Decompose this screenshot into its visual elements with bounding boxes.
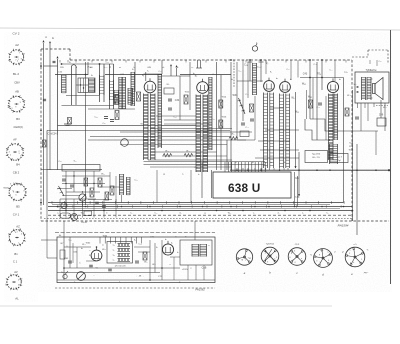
cap C48 box <box>377 118 386 126</box>
svg-text:Tₕ: Tₕ <box>112 255 114 257</box>
dial lamp <box>252 46 257 51</box>
svg-text:Tₙ: Tₙ <box>112 245 114 247</box>
wire y85 RF <box>76 84 88 86</box>
tube socket S6 <box>6 274 22 290</box>
svg-text:Sₓ: Sₓ <box>156 247 158 249</box>
svg-text:AL: AL <box>15 296 19 300</box>
svg-text:C₆₇: C₆₇ <box>97 259 100 261</box>
svg-text:n₂: n₂ <box>192 67 194 69</box>
svg-text:C₅₉: C₅₉ <box>102 123 105 125</box>
svg-text:4: 4 <box>274 259 275 261</box>
pilot lamp circle <box>71 214 78 221</box>
svg-text:2: 2 <box>21 149 22 151</box>
svg-text:C₅₀: C₅₀ <box>378 61 381 63</box>
svg-text:6: 6 <box>350 263 351 265</box>
arrow post 1 <box>170 64 172 66</box>
svg-text:8: 8 <box>9 61 10 63</box>
junction dots on buses <box>57 206 59 208</box>
coil S1a <box>62 75 67 93</box>
power box outline <box>57 237 215 283</box>
svg-text:S₈: S₈ <box>231 79 233 81</box>
svg-text:C₄₄: C₄₄ <box>329 70 332 72</box>
svg-text:2: 2 <box>10 155 11 157</box>
tube U3 cathode columns <box>264 93 268 169</box>
wire y132 <box>120 131 252 133</box>
wire y81 to tube3 <box>237 80 263 82</box>
svg-text:W₄₈: W₄₈ <box>347 95 351 97</box>
svg-text:2: 2 <box>17 232 18 234</box>
svg-text:W₉: W₉ <box>167 84 170 86</box>
svg-text:f₂: f₂ <box>119 282 121 284</box>
cluster wires <box>62 175 110 177</box>
wires to bus <box>65 199 67 211</box>
wire vertical x135 <box>134 62 136 92</box>
rectifier tube V1 <box>91 247 102 261</box>
svg-text:W12: W12 <box>185 91 190 93</box>
volume control barrel <box>60 213 71 218</box>
svg-text:h₀: h₀ <box>198 174 200 176</box>
tube U3 (detector) <box>264 78 275 92</box>
svg-text:W₃₂: W₃₂ <box>231 134 235 136</box>
svg-text:9: 9 <box>12 191 13 193</box>
svg-text:g: g <box>241 259 242 261</box>
dashed border right <box>351 60 353 221</box>
tube socket S2 (CBL) <box>8 95 25 112</box>
power transformer box <box>180 240 212 265</box>
svg-text:3: 3 <box>18 153 19 155</box>
svg-text:a•: a• <box>334 251 336 253</box>
svg-text:k: k <box>360 254 361 256</box>
svg-text:W48: W48 <box>349 150 354 152</box>
svg-text:C 1: C 1 <box>13 260 18 264</box>
power left stubs to chassis <box>41 239 57 241</box>
volume pot circle <box>79 194 86 201</box>
wire x180 mid <box>179 76 181 120</box>
power box top comb <box>99 237 101 244</box>
connect to upper dashes <box>63 221 65 237</box>
svg-text:2: 2 <box>292 260 293 262</box>
cluster caps C63 <box>62 178 66 180</box>
svg-text:Tr: Tr <box>185 236 187 239</box>
grid cap wires x197-200 top <box>197 60 199 68</box>
AVC wire x299 with arrow <box>298 152 300 196</box>
svg-text:AV: AV <box>14 270 18 274</box>
coil S2 hatch <box>89 79 95 93</box>
wire y75 seg3 <box>180 74 231 76</box>
coil S5 hatch (osc) <box>119 77 122 109</box>
svg-text:c: c <box>89 250 90 252</box>
wire y120 mid <box>164 119 196 121</box>
ballast bar Th <box>118 254 131 257</box>
mains cord line <box>55 232 215 234</box>
svg-text:Tₛ: Tₛ <box>182 174 184 176</box>
tuning cap rotor hatch <box>110 80 114 100</box>
svg-text:S₂: S₂ <box>91 75 93 77</box>
svg-text:4: 4 <box>18 280 19 282</box>
bus y208.4 faint <box>60 207 340 209</box>
small res W14 <box>219 100 223 108</box>
svg-text:Tₛ: Tₛ <box>112 260 114 262</box>
svg-text:W₅₉: W₅₉ <box>228 212 232 214</box>
coil S3 rails <box>99 64 101 102</box>
detector cluster extra parts <box>250 104 254 112</box>
svg-text:5: 5 <box>361 259 362 261</box>
svg-text:∼: ∼ <box>93 275 95 277</box>
svg-text:S₇₂: S₇₂ <box>73 161 76 163</box>
svg-text:b₄: b₄ <box>290 79 292 81</box>
svg-text:Bn: Bn <box>14 252 18 256</box>
tube socket S4 <box>8 183 27 202</box>
svg-text:6: 6 <box>294 251 295 253</box>
svg-text:2: 2 <box>7 282 8 284</box>
wire x385 <box>384 103 386 131</box>
info box 2 <box>330 154 348 163</box>
svg-text:BL 2: BL 2 <box>13 72 19 76</box>
wire y76 middle <box>162 75 190 77</box>
wire x227 <box>226 140 228 170</box>
aerial series cap <box>53 60 56 62</box>
power box extra internals <box>72 243 74 263</box>
bus y170 main <box>230 169 389 171</box>
aerial arrow E <box>49 41 51 43</box>
svg-text:W₆₇: W₆₇ <box>144 261 148 263</box>
coil S4 hatch <box>114 90 119 105</box>
bus tick marks <box>51 201 53 204</box>
speaker cone <box>373 84 376 94</box>
coil S3 rungs <box>100 75 105 95</box>
svg-text:1: 1 <box>18 242 19 244</box>
svg-text:6: 6 <box>18 284 19 286</box>
svg-text:B4: B4 <box>16 162 20 166</box>
svg-text:g₄: g₄ <box>179 282 181 284</box>
wire x243 det <box>242 70 244 121</box>
wire x221 tall <box>220 75 222 170</box>
shield step outline left <box>305 119 330 140</box>
svg-text:4: 4 <box>12 231 13 233</box>
scan page right edge <box>390 30 392 284</box>
svg-text:C₄₁: C₄₁ <box>245 127 248 129</box>
pot arrow <box>80 194 87 201</box>
svg-text:W₆₁: W₆₁ <box>81 212 85 214</box>
dashed top-right pocket <box>352 56 368 58</box>
svg-text:h₄: h₄ <box>284 162 286 164</box>
svg-text:C₆₂: C₆₂ <box>194 167 197 169</box>
svg-text:C₄₀: C₄₀ <box>245 94 248 96</box>
ballast bar Tf <box>118 259 131 262</box>
svg-text:638 U: 638 U <box>228 181 260 195</box>
coil S6 hatch <box>128 88 133 105</box>
base diagram d <box>314 249 333 268</box>
IF2 primary coil <box>196 95 201 173</box>
svg-text:C₅₁: C₅₁ <box>58 161 61 163</box>
scan page top edge <box>0 28 400 30</box>
power transformer primary <box>192 244 199 257</box>
wire bus y64 top <box>62 63 114 65</box>
svg-text:h₃: h₃ <box>270 162 272 164</box>
type box 638U <box>213 172 291 198</box>
svg-text:W₄₃: W₄₃ <box>308 95 312 98</box>
speaker wires <box>371 78 373 80</box>
tube U1 (mixer) <box>144 78 156 93</box>
small res bottom <box>143 252 147 260</box>
lamp drop wire 1 <box>249 60 251 81</box>
svg-text:PH1594: PH1594 <box>338 223 349 227</box>
svg-text:6: 6 <box>8 235 9 237</box>
svg-text:C₅₄: C₅₄ <box>238 71 241 73</box>
cluster verticals <box>65 171 67 199</box>
svg-text:B3: B3 <box>16 117 20 121</box>
svg-text:b₈: b₈ <box>165 239 167 241</box>
svg-text:b₃: b₃ <box>276 78 278 80</box>
svg-text:C·n/C34: C·n/C34 <box>48 132 58 135</box>
cluster extra res boxes <box>84 178 88 186</box>
resistor W6 <box>137 92 141 101</box>
svg-text:b₆: b₆ <box>81 248 83 250</box>
svg-text:GW: GW <box>147 67 151 69</box>
dashed border bottom <box>41 220 389 222</box>
cluster junction dots <box>65 183 66 184</box>
scan noise overlay <box>38 32 392 292</box>
cap C41 <box>241 122 245 124</box>
svg-text:1: 1 <box>12 197 13 199</box>
svg-text:g•: g• <box>342 251 344 253</box>
wire x322 <box>321 60 323 90</box>
svg-text:h₂: h₂ <box>252 162 254 164</box>
dashed border left <box>40 49 42 221</box>
svg-text:C₆₈: C₆₈ <box>138 243 141 245</box>
wire vertical x85.5 <box>85 62 87 205</box>
svg-text:k: k <box>353 262 354 264</box>
base diagram e <box>345 247 365 267</box>
svg-text:125 150 220: 125 150 220 <box>114 266 126 268</box>
svg-text:S₁: S₁ <box>69 62 71 64</box>
svg-text:5: 5 <box>9 104 10 106</box>
svg-text:a₁: a₁ <box>57 212 59 214</box>
svg-text:m₂: m₂ <box>179 212 182 214</box>
svg-text:C₄₆: C₄₆ <box>316 107 319 109</box>
trimmer circle <box>121 139 129 147</box>
svg-text:S₁₀: S₁₀ <box>353 84 356 86</box>
svg-text:b₅: b₅ <box>339 79 341 81</box>
svg-text:6: 6 <box>289 257 290 259</box>
svg-text:6: 6 <box>5 284 6 286</box>
aerial arrow A <box>42 40 44 42</box>
bus y215 dashed <box>48 214 352 216</box>
svg-text:2: 2 <box>18 151 19 153</box>
shield step outline right <box>310 119 378 131</box>
zigzag resistor W15 <box>163 154 172 157</box>
wire x381 <box>380 100 382 118</box>
speaker terminal marks <box>356 86 359 88</box>
svg-text:W₆₆: W₆₆ <box>102 249 106 251</box>
svg-text:C₆₁: C₆₁ <box>134 179 137 181</box>
svg-text:8: 8 <box>23 191 24 193</box>
svg-text:W64: W64 <box>103 235 108 237</box>
svg-text:B5: B5 <box>16 204 20 208</box>
small box right of lamp <box>84 211 92 216</box>
svg-text:C₄₅: C₄₅ <box>313 64 316 66</box>
svg-text:3: 3 <box>20 102 21 104</box>
svg-text:e₁: e₁ <box>74 282 76 284</box>
svg-text:AB: AB <box>15 89 19 93</box>
svg-text:C34: C34 <box>175 99 180 102</box>
svg-text:4: 4 <box>9 152 10 154</box>
svg-text:k: k <box>328 255 329 257</box>
ground tick <box>64 123 71 125</box>
wire x237 det <box>236 62 238 140</box>
ballast box <box>107 242 133 264</box>
svg-text:C₁₈: C₁₈ <box>105 61 108 63</box>
switch box <box>62 165 100 172</box>
wire x352 inner <box>352 90 354 221</box>
cluster caps C64 <box>70 184 74 186</box>
svg-text:T₁: T₁ <box>147 71 149 73</box>
svg-text:Tyg 15/4: Tyg 15/4 <box>312 154 321 156</box>
svg-text:W₄₂: W₄₂ <box>302 82 306 85</box>
power bottom dashed <box>55 287 215 289</box>
small caps bottom <box>135 260 139 262</box>
svg-text:k₀: k₀ <box>131 212 133 214</box>
top band extra verticals right half <box>242 60 244 70</box>
svg-text:CV 2: CV 2 <box>13 32 20 36</box>
svg-text:W₆₅: W₆₅ <box>82 244 86 246</box>
tube socket S3 <box>6 143 24 161</box>
AVC wire x295 with arrow <box>295 92 297 168</box>
svg-text:W₁₅: W₁₅ <box>165 151 169 153</box>
lamp drop wire 2 <box>260 60 262 82</box>
svg-text:← 48 →: ← 48 → <box>136 275 144 277</box>
wire x310 <box>309 60 311 119</box>
dial lamp bottom <box>77 272 86 281</box>
wire y77 right <box>300 77 344 79</box>
svg-text:d₁: d₁ <box>102 244 104 246</box>
wires under detector to bus <box>236 168 238 170</box>
IF2 third winding <box>209 77 212 150</box>
cap C34 <box>168 98 172 100</box>
zigzag resistor W32 <box>229 137 238 140</box>
svg-text:8: 8 <box>21 281 22 283</box>
svg-text:4 EW(2): 4 EW(2) <box>13 125 23 129</box>
speaker bottom stubs <box>357 103 359 108</box>
svg-text:g₁: g₁ <box>89 254 91 256</box>
mid horizontals between IF and bus <box>148 159 232 161</box>
switch box inner contacts <box>80 78 82 93</box>
power wires horizontal <box>64 267 180 269</box>
mid horizontal segments x150-230 <box>156 115 196 117</box>
svg-text:3: 3 <box>20 146 21 148</box>
svg-text:W₇₀: W₇₀ <box>152 264 156 266</box>
wire comb above type box <box>224 162 226 172</box>
cluster wafer switch circle <box>61 203 67 209</box>
tube U4 (output driver) <box>280 79 291 93</box>
svg-text:max 3: max 3 <box>336 156 343 158</box>
dashed border top <box>70 59 352 61</box>
wires right of type box <box>294 172 296 203</box>
resistor W12 <box>184 95 188 104</box>
svg-text:5: 5 <box>276 257 277 259</box>
resistor R pad <box>68 118 72 125</box>
coupling coil S9 <box>253 63 257 95</box>
padder cap C58 <box>104 116 108 118</box>
tube U5 (output) <box>327 78 338 92</box>
svg-text:7: 7 <box>23 55 24 57</box>
junction right bus <box>309 77 311 79</box>
wire x57 lower <box>57 135 59 170</box>
svg-text:CBV: CBV <box>14 80 20 84</box>
svg-text:≈220V: ≈220V <box>182 268 189 271</box>
svg-text:W₆: W₆ <box>141 123 144 125</box>
cluster res W51 <box>98 178 102 187</box>
output choke coil <box>330 144 338 164</box>
hatched coil bottom-left <box>120 174 124 195</box>
svg-text:9: 9 <box>7 105 8 107</box>
svg-text:Sₔ: Sₔ <box>134 240 136 242</box>
diagonal resistor W31 <box>239 98 246 114</box>
svg-text:e₂: e₂ <box>302 212 304 214</box>
wire x343 <box>343 78 345 203</box>
svg-text:Wₚ: Wₚ <box>291 96 294 99</box>
speaker transformer primary <box>362 77 366 100</box>
svg-text:W14: W14 <box>222 96 227 98</box>
svg-text:3: 3 <box>267 261 268 263</box>
svg-text:4: 4 <box>17 60 18 62</box>
svg-text:x₁: x₁ <box>253 212 255 214</box>
svg-text:k₂: k₂ <box>177 252 179 254</box>
svg-text:g: g <box>319 254 320 256</box>
wire aerial to coil <box>44 65 58 67</box>
svg-text:W₅₁: W₅₁ <box>101 173 105 175</box>
IF1 third winding <box>158 74 162 148</box>
audio stage tie wires <box>270 107 283 109</box>
svg-text:W31: W31 <box>233 94 239 97</box>
tube socket S1 (CV2) <box>8 49 24 65</box>
zigzag resistor W17 <box>184 154 193 157</box>
svg-text:6: 6 <box>13 288 14 290</box>
svg-text:6: 6 <box>15 232 16 234</box>
wire x47 tall <box>46 130 48 210</box>
arrow post 2 <box>175 65 177 67</box>
IF1 secondary coil <box>151 94 156 161</box>
svg-text:h₅: h₅ <box>327 212 329 214</box>
tuning gang wire <box>109 64 111 109</box>
wire bus y74.5 left <box>55 74 88 76</box>
svg-text:C₅₈: C₅₈ <box>94 116 97 118</box>
bus y170 left segment <box>47 168 102 170</box>
svg-text:Ty6/9a/Cw: Ty6/9a/Cw <box>366 70 377 72</box>
svg-text:C₃₂: C₃₂ <box>158 133 161 135</box>
wire x211 <box>211 170 213 198</box>
wave switch box <box>78 78 95 93</box>
svg-text:4: 4 <box>249 258 250 260</box>
wire x162 <box>161 60 163 74</box>
speaker outer box <box>355 72 389 103</box>
wire y109 <box>88 108 135 110</box>
svg-text:AZ: AZ <box>15 43 19 47</box>
svg-text:7: 7 <box>19 53 20 55</box>
info box 1 <box>305 151 328 163</box>
tone cap pair <box>95 201 99 203</box>
svg-text:a₁: a₁ <box>90 67 92 69</box>
svg-text:C₃₆: C₃₆ <box>173 116 176 118</box>
dashed border top step <box>41 48 70 50</box>
wire vertical x88 top <box>87 62 89 75</box>
wire x317 <box>316 62 318 140</box>
svg-text:W₄₉: W₄₉ <box>383 107 387 109</box>
tube U2 (IF amp) <box>197 79 209 94</box>
bus y218.4 dashed <box>44 217 352 219</box>
antenna rod wire <box>56 56 58 58</box>
svg-text:d₄: d₄ <box>277 212 279 214</box>
